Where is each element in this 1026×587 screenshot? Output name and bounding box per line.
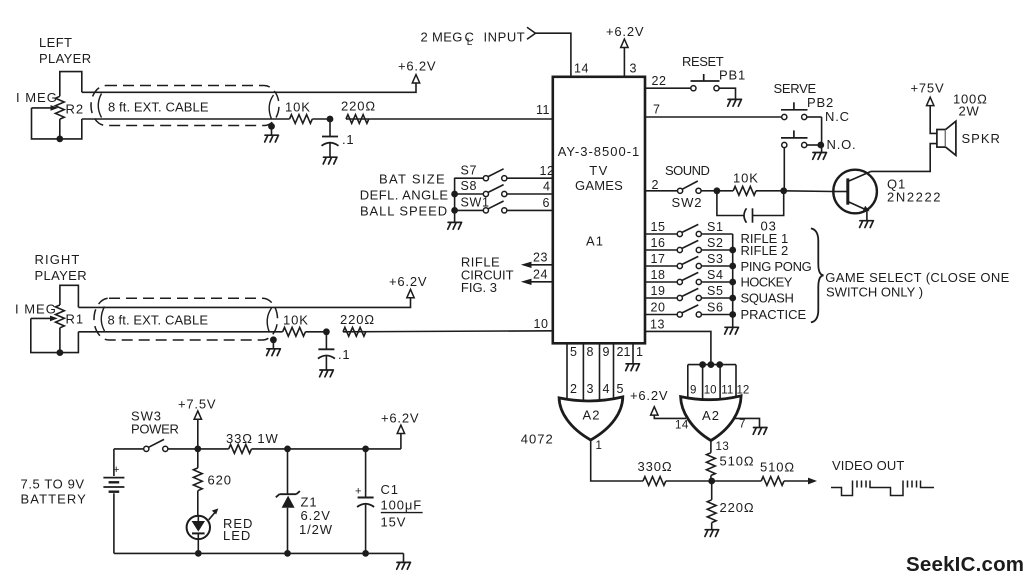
svg-text:RESET: RESET [682, 54, 724, 69]
svg-text:S8: S8 [461, 179, 478, 193]
node at 10K/cap junction (right) [323, 328, 330, 335]
svg-text:S5: S5 [707, 284, 724, 298]
LED emission arrow [209, 513, 215, 520]
svg-text:SOUND: SOUND [665, 163, 710, 178]
wire NO stub [807, 144, 822, 146]
switch S2 contacts [677, 247, 682, 252]
svg-text:12: 12 [737, 385, 750, 397]
wire S1 to bus [702, 233, 733, 235]
pushbutton PB2 NO actuator [781, 137, 808, 139]
resistor 33 ohm 1W [229, 445, 252, 454]
wire gate pin 7 to ground [735, 418, 760, 427]
wire battery to SW3 [114, 448, 144, 450]
svg-text:S6: S6 [707, 300, 724, 314]
svg-text:+: + [113, 464, 119, 476]
wire pin 2 to SW2 [645, 190, 678, 192]
wire NC stub [807, 116, 822, 118]
svg-text:14: 14 [675, 420, 689, 432]
switch S8 blade [488, 185, 504, 193]
svg-text:LEFT: LEFT [39, 35, 72, 50]
node S2 bus junction [729, 247, 736, 254]
ground (video 220) [705, 530, 719, 537]
svg-text:220Ω: 220Ω [340, 312, 375, 327]
shield 8ft ext cable (dashed) [91, 86, 279, 126]
svg-text:9: 9 [690, 385, 696, 397]
pushbutton PB2 NC actuator [781, 109, 808, 111]
wire top conductor to +6.2V [82, 83, 416, 92]
wire pin 1 to ground [632, 343, 634, 363]
wire node to 510 [712, 480, 762, 482]
pushbutton PB1 contacts [691, 86, 696, 91]
svg-text:R1: R1 [66, 312, 85, 327]
zener diode Z1 [287, 449, 289, 494]
svg-text:RIGHT: RIGHT [35, 252, 81, 267]
svg-text:+6.2V: +6.2V [381, 410, 419, 425]
node BALL junction [451, 207, 458, 214]
svg-text:15V: 15V [381, 515, 407, 530]
svg-text:+6.2V: +6.2V [606, 24, 644, 39]
wire pin 9 down [599, 343, 601, 406]
power arrow +6.2V (supply) [397, 425, 404, 433]
svg-text:1: 1 [596, 440, 603, 452]
switch S2 blade [682, 240, 698, 248]
switch S6 blade [682, 305, 698, 313]
wire collector to speaker [871, 144, 937, 172]
capacitor C1 100uF [365, 449, 367, 497]
wire bottom conductor [82, 118, 290, 120]
svg-text:+75V: +75V [911, 81, 945, 96]
potentiometer R1 housing box [60, 285, 79, 307]
svg-text:33Ω 1W: 33Ω 1W [226, 431, 279, 446]
svg-text:PRACTICE: PRACTICE [741, 307, 807, 322]
svg-text:23: 23 [533, 251, 548, 265]
wire common bus S7-SW1 [454, 178, 456, 222]
svg-text:GAME SELECT (CLOSE ONE: GAME SELECT (CLOSE ONE [825, 270, 1009, 285]
svg-text:7: 7 [739, 419, 746, 431]
switch SW2 contacts [678, 188, 683, 193]
svg-text:+6.2V: +6.2V [389, 274, 427, 289]
op-amp/IC U A1 AY-3-8500-1 box [553, 77, 645, 344]
resistor 330 ohm [643, 477, 666, 486]
resistor 10K (right player) [283, 327, 306, 336]
svg-text:RIFLE 2: RIFLE 2 [741, 243, 789, 258]
switch S6 contacts [677, 312, 682, 317]
svg-text:SW2: SW2 [672, 195, 703, 210]
svg-text:4: 4 [543, 180, 550, 194]
svg-text:13: 13 [716, 441, 730, 453]
wire PB2 NO-left down to 10K node [783, 148, 785, 191]
svg-text:A2: A2 [702, 408, 720, 423]
svg-text:3: 3 [630, 62, 637, 76]
cable left-end arc [98, 94, 101, 118]
resistor 510 ohm (right) [761, 477, 784, 486]
wire rail to ground [403, 553, 405, 562]
power arrow +6.2V (right player) [407, 289, 414, 297]
shield 8ft ext cable right (dashed) [94, 298, 278, 340]
svg-text:BALL SPEED: BALL SPEED [360, 204, 448, 219]
svg-text:SW1: SW1 [461, 196, 490, 210]
pushbutton PB2 NC contacts [782, 114, 787, 119]
resistor 220 ohm (left player) [346, 115, 369, 124]
svg-text:7.5 TO 9V: 7.5 TO 9V [21, 477, 85, 492]
wire 510 to node [710, 476, 712, 482]
svg-text:A2: A2 [583, 408, 601, 423]
svg-text:510Ω: 510Ω [720, 454, 755, 469]
node S5 bus junction [729, 295, 736, 302]
resistor 510 ohm (top) [707, 453, 716, 476]
capacitor 03 loop [717, 191, 744, 216]
node +7.5V junction [194, 446, 201, 453]
svg-text:6.2V: 6.2V [301, 508, 331, 523]
wire pin 7 to PB2 [645, 116, 782, 118]
svg-text:10K: 10K [283, 313, 309, 328]
wiper arrow of R2 [32, 107, 52, 109]
resistor 620 [197, 449, 199, 468]
svg-text:BAT SIZE: BAT SIZE [379, 172, 446, 187]
svg-text:S4: S4 [707, 268, 724, 282]
svg-text:L: L [467, 37, 473, 48]
wire pin 21 down [613, 343, 615, 404]
ground (pin 1) [626, 364, 640, 371]
wire +7.5V arrow [197, 419, 199, 449]
svg-text:GAMES: GAMES [575, 178, 623, 193]
svg-text:6: 6 [543, 196, 550, 210]
switch S4 contacts [677, 279, 682, 284]
switch SW3 contacts [144, 446, 149, 451]
fraction line C1 [381, 512, 423, 514]
svg-text:620: 620 [208, 473, 232, 488]
wire pin 19 row [645, 297, 677, 299]
ground (Q1 emitter) [860, 221, 874, 228]
svg-text:220Ω: 220Ω [720, 500, 755, 515]
wire +75V to speaker [930, 106, 937, 134]
svg-text:TV: TV [589, 163, 609, 178]
node bracket b [708, 361, 715, 368]
svg-text:+: + [355, 486, 361, 498]
wire gate inputs 9-12 bracket [688, 365, 736, 406]
svg-text:N.O.: N.O. [827, 137, 857, 152]
power arrow +7.5V [194, 411, 201, 419]
wire SW2 to node [701, 190, 717, 192]
LED red [187, 516, 210, 539]
wire S4 to bus [702, 281, 733, 283]
speaker SPKR [937, 130, 946, 148]
switch SW1 contacts [483, 208, 488, 213]
node video junction [708, 478, 715, 485]
svg-text:SERVE: SERVE [774, 81, 817, 96]
svg-text:14: 14 [574, 62, 589, 76]
svg-text:1/2W: 1/2W [299, 522, 333, 537]
node C1 top [362, 446, 369, 453]
svg-text:220Ω: 220Ω [341, 99, 376, 114]
svg-text:BATTERY: BATTERY [21, 492, 87, 507]
switch SW2 blade [682, 181, 698, 189]
wire node-10K-node [717, 190, 733, 192]
svg-text:S7: S7 [461, 163, 478, 177]
svg-text:7: 7 [653, 103, 660, 117]
wire node to 220 [711, 481, 713, 500]
svg-text:11: 11 [721, 385, 733, 397]
ground (game select) [725, 327, 739, 334]
switch S8 contacts [483, 191, 488, 196]
wire 330 to node [666, 480, 712, 482]
svg-text:5: 5 [617, 382, 624, 396]
node DEFL junction [451, 191, 458, 198]
svg-text:N.C: N.C [825, 109, 850, 124]
switch SW1 blade [488, 201, 504, 209]
wire S8 to IC [507, 193, 553, 195]
wire pin 15 row [645, 233, 677, 235]
ground (PB1) [728, 99, 742, 106]
svg-text:HOCKEY: HOCKEY [741, 275, 793, 290]
switch S1 blade [682, 224, 698, 232]
wire S2 to bus [702, 249, 733, 251]
switch S5 blade [682, 288, 698, 296]
svg-text:13: 13 [650, 318, 665, 332]
svg-text:PB1: PB1 [719, 68, 746, 83]
node at NO contact [817, 142, 824, 149]
svg-text:DEFL. ANGLE: DEFL. ANGLE [360, 188, 449, 203]
cable right-end arc (right) [267, 308, 271, 333]
svg-text:10: 10 [704, 385, 717, 397]
resistor 220 ohm (right player) [343, 327, 366, 336]
svg-text:+6.2V: +6.2V [398, 59, 436, 74]
node S6 bus junction [729, 311, 736, 318]
svg-text:S1: S1 [707, 220, 724, 234]
battery 7.5-9V [113, 449, 115, 476]
svg-text:PB2: PB2 [807, 95, 834, 110]
switch S7 contacts [483, 176, 488, 181]
svg-text:2N2222: 2N2222 [887, 190, 942, 205]
power arrow +6.2V (pin 3) [621, 39, 628, 47]
wire S3 to bus [702, 265, 733, 267]
wire pin 8 down [582, 343, 584, 406]
svg-text:.1: .1 [338, 347, 350, 362]
svg-text:2W: 2W [959, 104, 980, 119]
wire ground rail [114, 552, 404, 554]
node at 10K/cap junction [327, 116, 334, 123]
ground (S7 block) [448, 222, 462, 229]
wire NC to NO [821, 117, 823, 145]
svg-text:+6.2V: +6.2V [630, 388, 668, 403]
ground (right cable shield) [272, 340, 274, 349]
svg-text:S2: S2 [707, 236, 724, 250]
cable right-end arc [269, 95, 273, 119]
svg-text:I MEG: I MEG [15, 302, 57, 317]
wiper arrow of R1 [31, 317, 51, 319]
ground (PB2) [813, 153, 827, 160]
node S3 bus junction [729, 263, 736, 270]
node S4 bus junction [729, 279, 736, 286]
wire emitter to ground [866, 210, 868, 220]
svg-text:9: 9 [603, 345, 610, 359]
pushbutton PB2 NO contacts [782, 142, 787, 147]
node bracket c [716, 361, 723, 368]
wire 220 to ground [711, 523, 713, 530]
resistor 10K (left player) [290, 115, 313, 124]
wire gate2 output [710, 441, 712, 453]
node junction at R1 bottom [57, 349, 64, 356]
wire SW1 to IC [507, 209, 553, 211]
wire game-select common bus [732, 234, 734, 327]
svg-text:2: 2 [570, 382, 577, 396]
wire rail to +6.2V [252, 448, 401, 450]
svg-text:S3: S3 [707, 252, 724, 266]
capacitor .1 (right player) [325, 332, 327, 349]
ground (gate pin 7) [753, 428, 767, 435]
capacitor .1 (left player) [329, 119, 331, 136]
svg-text:2: 2 [652, 178, 659, 192]
wire SW3 to rail [168, 448, 229, 450]
svg-text:5: 5 [570, 345, 577, 359]
svg-text:12: 12 [540, 164, 555, 178]
wire pin 13 to gate A2 [645, 331, 711, 364]
node left of 10K [714, 187, 721, 194]
shield ground junction dot (right) [270, 336, 277, 343]
node C1 rail [362, 550, 369, 557]
svg-text:AY-3-8500-1: AY-3-8500-1 [558, 144, 641, 159]
wire pin 18 row [645, 281, 677, 283]
switch S5 contacts [677, 295, 682, 300]
svg-text:2 MEG: 2 MEG [421, 30, 463, 45]
wire wiper loop (right) [31, 318, 57, 352]
wire bottom conductor (right) [78, 331, 282, 333]
svg-text:SWITCH ONLY ): SWITCH ONLY ) [826, 285, 923, 300]
switch S3 contacts [677, 263, 682, 268]
svg-text:17: 17 [651, 252, 666, 266]
wire 2 MEG input to pin 14 [535, 33, 571, 77]
node zener top [284, 446, 291, 453]
wire NO to ground [821, 145, 823, 152]
node junction at R2 bottom [56, 136, 63, 143]
power arrow +75V [927, 97, 934, 105]
svg-text:15: 15 [651, 220, 666, 234]
svg-text:1: 1 [636, 345, 643, 359]
or-gate A2 left [559, 397, 623, 440]
switch S4 blade [682, 272, 698, 280]
power arrow +6.2V (left player) [412, 75, 419, 83]
svg-text:4: 4 [603, 382, 610, 396]
switch SW3 blade [149, 439, 165, 447]
or-gate A2 right [681, 396, 742, 441]
wire wiper loop [32, 108, 58, 139]
svg-text:A1: A1 [586, 234, 604, 249]
svg-text:510Ω: 510Ω [760, 460, 795, 475]
ground (cable shield) [271, 126, 273, 135]
svg-text:22: 22 [652, 74, 667, 88]
svg-text:10K: 10K [733, 171, 759, 186]
wire pin 24 arrow [531, 281, 553, 283]
wire S6 to bus [702, 314, 733, 316]
svg-text:11: 11 [536, 103, 550, 117]
svg-text:C1: C1 [381, 482, 399, 497]
wire S7 to IC [507, 177, 553, 179]
svg-text:PING PONG: PING PONG [741, 259, 812, 274]
svg-text:18: 18 [651, 268, 666, 282]
svg-text:PLAYER: PLAYER [39, 51, 91, 66]
switch S3 blade [682, 256, 698, 264]
wire S8 row left [455, 193, 484, 195]
svg-text:SQUASH: SQUASH [741, 291, 794, 306]
switch S1 contacts [677, 231, 682, 236]
wire LED to rail [197, 539, 199, 553]
wire pin 17 row [645, 265, 677, 267]
potentiometer R1 element [56, 305, 65, 328]
svg-text:330Ω: 330Ω [638, 459, 673, 474]
wire pin 16 row [645, 249, 677, 251]
resistor 10K (sound) [733, 186, 756, 195]
svg-text:INPUT: INPUT [484, 30, 526, 45]
wire pin 20 row [645, 314, 677, 316]
svg-text:R2: R2 [66, 102, 85, 117]
svg-text:100μF: 100μF [381, 498, 423, 513]
potentiometer R2 element [55, 96, 64, 119]
node LED rail [195, 550, 202, 557]
svg-text:LED: LED [223, 528, 251, 543]
svg-text:16: 16 [651, 236, 666, 250]
svg-text:SPKR: SPKR [962, 131, 1001, 146]
wire SW1 row left [455, 209, 484, 211]
svg-text:3: 3 [587, 382, 594, 396]
wire PB1 to ground [719, 88, 735, 99]
power arrow +6.2V (gate) [651, 407, 658, 415]
shield ground junction dot [268, 123, 275, 130]
brace game select [811, 228, 824, 322]
svg-text:VIDEO OUT: VIDEO OUT [832, 458, 904, 473]
svg-text:8 ft. EXT. CABLE: 8 ft. EXT. CABLE [108, 313, 209, 328]
wire pin 23 arrow [531, 264, 553, 266]
ground (supply rail) [397, 562, 411, 569]
wire S5 to bus [702, 297, 733, 299]
wire +6.2V to gate pin 14 [654, 415, 686, 418]
wire 10K node to Q1 base [784, 190, 834, 193]
svg-text:.1: .1 [342, 132, 354, 147]
svg-text:I MEG: I MEG [16, 90, 58, 105]
svg-text:+7.5V: +7.5V [178, 397, 216, 412]
input arrow 2 MEG [527, 27, 536, 39]
svg-text:10K: 10K [285, 100, 311, 115]
svg-text:8 ft. EXT. CABLE: 8 ft. EXT. CABLE [108, 100, 209, 115]
wire 510 to video out arrow [784, 480, 809, 482]
node right of 10K [780, 187, 787, 194]
svg-text:20: 20 [651, 301, 666, 315]
video waveform [831, 481, 934, 496]
potentiometer R2 housing box [60, 72, 82, 97]
switch S7 blade [488, 169, 504, 177]
svg-text:8: 8 [587, 345, 594, 359]
transistor Q1 2N2222 [833, 170, 877, 214]
svg-text:POWER: POWER [131, 422, 179, 437]
svg-text:19: 19 [651, 284, 666, 298]
node zener rail [284, 550, 291, 557]
node bracket a [699, 361, 706, 368]
resistor 220 ohm (video) [707, 500, 716, 523]
svg-text:SeekIC.com: SeekIC.com [906, 553, 1024, 576]
svg-text:FIG. 3: FIG. 3 [461, 280, 497, 295]
svg-text:10: 10 [534, 317, 549, 331]
wire pin 3 to +6.2V [623, 48, 625, 77]
ground (left .1 cap) [323, 157, 337, 164]
cable left-end arc (right) [101, 307, 104, 332]
ground (right .1 cap) [320, 370, 334, 377]
wire pin 22 to PB1 [645, 87, 691, 89]
wire S7 row left [455, 177, 484, 179]
capacitor 03 plates [744, 208, 747, 222]
wire gate1 output [591, 440, 643, 481]
pushbutton PB1 actuator [691, 80, 720, 82]
svg-text:21: 21 [617, 345, 631, 359]
wire pin 5 down [566, 343, 568, 404]
